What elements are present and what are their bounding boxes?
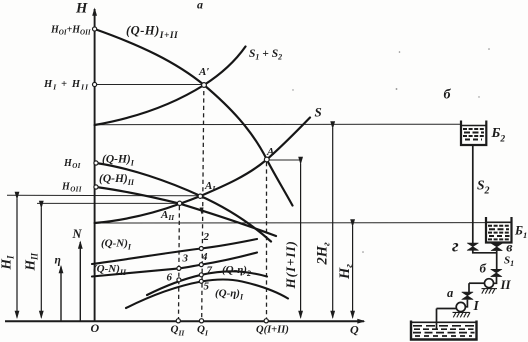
svg-text:Q: Q (350, 323, 359, 337)
svg-text:4: 4 (201, 251, 208, 263)
svg-text:H: H (75, 1, 88, 17)
svg-text:N: N (72, 227, 83, 241)
svg-text:HI + HII: HI + HII (43, 79, 89, 91)
svg-text:A: A (266, 146, 274, 158)
svg-text:HОII: HОII (61, 182, 82, 194)
svg-text:QII: QII (171, 324, 186, 338)
svg-text:(Q-η)I: (Q-η)I (215, 288, 244, 302)
svg-text:г: г (452, 236, 459, 256)
svg-text:QI: QI (197, 324, 209, 338)
svg-text:Б2: Б2 (491, 126, 506, 144)
svg-text:S1: S1 (504, 255, 514, 269)
svg-text:2Hг: 2Hг (315, 242, 333, 266)
svg-text:5: 5 (204, 281, 210, 293)
svg-text:HI: HI (0, 255, 15, 271)
svg-text:(Q-H)II: (Q-H)II (99, 173, 135, 187)
svg-text:а: а (447, 286, 453, 300)
svg-text:6: 6 (167, 272, 173, 284)
svg-text:Hг: Hг (337, 264, 355, 280)
svg-text:S2: S2 (477, 178, 490, 197)
svg-text:A′: A′ (198, 66, 209, 78)
svg-text:О: О (91, 321, 100, 335)
svg-text:HОI+HОII: HОI+HОII (50, 25, 91, 37)
svg-text:II: II (500, 277, 512, 292)
svg-text:H(I+II): H(I+II) (283, 240, 298, 289)
svg-text:в: в (506, 241, 513, 256)
svg-text:HОI: HОI (63, 158, 81, 170)
svg-text:(Q-H)I+II: (Q-H)I+II (126, 24, 178, 42)
svg-text:(Q-N)I: (Q-N)I (101, 238, 132, 252)
svg-text:S1 + S2: S1 + S2 (249, 48, 282, 62)
svg-text:(Q-N)II: (Q-N)II (93, 263, 127, 277)
svg-text:3: 3 (182, 253, 189, 265)
svg-text:AI: AI (204, 180, 216, 193)
svg-text:η: η (55, 255, 61, 267)
svg-text:2: 2 (203, 231, 210, 243)
svg-text:(Q-η)2: (Q-η)2 (222, 264, 251, 278)
svg-text:б: б (444, 88, 452, 103)
svg-text:HII: HII (23, 252, 40, 271)
svg-text:Q(I+II): Q(I+II) (256, 325, 289, 336)
svg-text:7: 7 (207, 265, 213, 277)
svg-text:(Q-H)I: (Q-H)I (102, 154, 135, 168)
svg-text:Б1: Б1 (514, 224, 527, 241)
svg-text:AII: AII (160, 209, 175, 222)
svg-text:S: S (315, 105, 322, 120)
svg-text:I: I (473, 298, 480, 313)
svg-text:б: б (480, 260, 487, 275)
svg-text:а: а (197, 0, 203, 12)
